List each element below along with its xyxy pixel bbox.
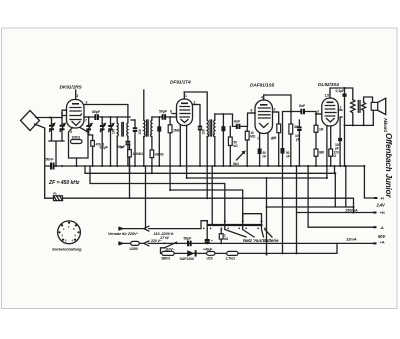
terminal +H — [297, 212, 376, 214]
terminal -A — [308, 166, 375, 227]
output transformer secondary — [362, 102, 366, 125]
oscillator coil b — [127, 105, 128, 142]
svg-text:3: 3 — [274, 108, 276, 112]
capacitor 50pF osc — [120, 142, 130, 166]
svg-text:1: 1 — [185, 94, 187, 98]
capacitor 8nF 2 — [299, 104, 306, 114]
trimmer C 50pF — [60, 118, 66, 142]
svg-text:1,5: 1,5 — [325, 94, 330, 98]
svg-text:2,4V: 2,4V — [376, 203, 387, 208]
svg-text:220 V~: 220 V~ — [150, 239, 163, 243]
capacitor 50uF series — [184, 237, 193, 247]
capacitor blob detector — [221, 114, 225, 166]
resistor 2k — [219, 229, 228, 244]
plug tick upper — [119, 227, 121, 231]
antenna (frame aerial diamond) — [21, 111, 40, 131]
bus line y173 — [85, 166, 335, 173]
plug tick lower — [119, 242, 121, 246]
wire antenna to grid — [36, 110, 67, 117]
IF2 coil a — [201, 120, 208, 198]
resistor 10Mohm grid leak — [245, 126, 256, 166]
trimmer C padder b — [108, 117, 113, 166]
svg-text:150mA: 150mA — [345, 208, 358, 213]
capacitor 100pF — [295, 120, 302, 166]
svg-text:+: + — [211, 239, 213, 243]
wire V2 anode top to IF2 — [184, 92, 207, 120]
svg-text:+A: +A — [380, 241, 385, 245]
wire V4 anode to output transformer — [330, 88, 353, 100]
svg-text:2,7kΩ: 2,7kΩ — [226, 257, 236, 261]
svg-text:6: 6 — [170, 110, 172, 114]
tube V1 DK91/1R5 — [61, 90, 88, 134]
socket diagram — [58, 221, 81, 244]
svg-text:100: 100 — [201, 129, 205, 134]
svg-text:+H: +H — [380, 211, 385, 215]
volume pot arrow — [237, 152, 245, 161]
bus line y183.5 — [90, 166, 225, 222]
svg-text:8nF: 8nF — [234, 120, 241, 124]
switch contact 2 — [224, 220, 226, 228]
resistor V4 grid — [314, 114, 324, 149]
trimmer C 25pF — [49, 118, 55, 142]
svg-text:7: 7 — [85, 119, 87, 123]
fuse in line y198 — [53, 192, 63, 201]
mains line lower — [121, 242, 143, 244]
IF1 coil b — [151, 117, 152, 150]
svg-text:1M: 1M — [319, 128, 324, 132]
filter electrolytic 50uF — [205, 229, 213, 244]
trimmer C at grid 2 — [86, 118, 92, 136]
svg-text:8nF: 8nF — [299, 104, 306, 108]
svg-text:2: 2 — [340, 106, 342, 110]
svg-text:0,1µF: 0,1µF — [100, 146, 108, 150]
resistor V4 filament — [329, 149, 339, 166]
bus line y190 — [170, 190, 243, 222]
switch contact 4 — [261, 220, 263, 228]
V3 filament wires — [260, 134, 268, 167]
terminal -H — [364, 166, 376, 198]
IF1 coil a — [138, 90, 145, 166]
svg-text:Akkord: Akkord — [383, 118, 388, 132]
svg-text:2: 2 — [77, 94, 79, 98]
switch contact 3 — [242, 220, 244, 228]
svg-text:680: 680 — [319, 151, 324, 155]
V4 filament wires — [327, 126, 331, 178]
trimmer C padder a — [100, 117, 105, 166]
svg-text:50nF: 50nF — [286, 151, 290, 158]
svg-text:+40µF: +40µF — [203, 247, 212, 251]
V2 filament wires — [180, 125, 186, 178]
switch bracket — [243, 214, 262, 222]
svg-text:100Ω: 100Ω — [72, 136, 81, 140]
svg-text:-A: -A — [380, 226, 384, 230]
resistor 2,7k — [226, 251, 239, 260]
svg-text:50nF: 50nF — [263, 151, 267, 158]
tube V4 DL92/3S4 — [316, 93, 342, 126]
capacitor blob AF bypass — [281, 148, 285, 154]
wire grid2 line y117 — [84, 116, 130, 118]
plug arrow upper — [144, 226, 149, 231]
switch label pointers — [225, 230, 272, 238]
switch contact 1 — [206, 220, 208, 228]
capacitor 80pF — [92, 110, 101, 120]
capacitor 50nF series in bus — [46, 158, 55, 170]
capacitor 0,1uF — [336, 88, 347, 166]
svg-text:-H: -H — [380, 197, 384, 201]
svg-text:50µF: 50µF — [184, 237, 193, 241]
junction dots on buses — [49, 87, 365, 256]
voltage selector — [164, 242, 178, 251]
speaker — [364, 97, 386, 125]
capacitor 50pF grid — [159, 110, 168, 120]
svg-text:880Ω: 880Ω — [162, 257, 171, 261]
svg-text:50nF: 50nF — [46, 158, 55, 162]
svg-text:7: 7 — [257, 137, 259, 141]
svg-text:Versatz für 220V~: Versatz für 220V~ — [108, 231, 140, 236]
resistor 47k — [91, 135, 104, 166]
terminal +A — [149, 242, 376, 244]
oscillator coil core — [122, 123, 124, 137]
vertical mains feed — [145, 198, 147, 228]
wire trimmer common — [49, 141, 64, 166]
svg-text:20nF: 20nF — [118, 145, 126, 149]
oscillator coil a — [112, 117, 119, 166]
svg-text:kΩ: kΩ — [224, 237, 229, 241]
svg-text:4: 4 — [261, 96, 263, 100]
svg-text:0,1µF: 0,1µF — [336, 89, 346, 93]
bus line y198 — [45, 198, 354, 212]
resistor U350 — [130, 241, 140, 251]
switch bar — [207, 224, 263, 226]
wire AF node to 8nF2 — [283, 112, 322, 254]
wire speaker return — [345, 124, 374, 126]
capacitor at V2 anode side — [193, 105, 203, 167]
svg-text:U350: U350 — [130, 247, 138, 251]
tube V2 DF91/1T4 — [170, 92, 196, 126]
svg-text:50pF: 50pF — [159, 110, 168, 114]
svg-text:ZF = 450 kHz: ZF = 450 kHz — [48, 180, 80, 186]
switch position dots — [203, 228, 266, 230]
svg-text:1,2MΩ: 1,2MΩ — [133, 152, 144, 156]
svg-text:100: 100 — [138, 129, 142, 134]
resistor 680 ohm — [150, 150, 164, 173]
vertical IF feed — [130, 166, 213, 225]
svg-text:3: 3 — [317, 110, 319, 114]
IF2 core — [210, 120, 212, 136]
svg-text:DL92/3S4: DL92/3S4 — [318, 82, 339, 88]
resistor 1Mohm — [168, 117, 181, 190]
svg-text:DF91/1T4: DF91/1T4 — [170, 80, 191, 86]
mains line upper — [121, 221, 207, 229]
svg-text:6: 6 — [251, 109, 253, 113]
resistor V4 grid lower — [314, 149, 324, 166]
svg-text:Offenbach Junior: Offenbach Junior — [384, 133, 393, 198]
output transformer primary — [351, 100, 355, 126]
resistor det load — [228, 126, 232, 166]
tube V3 DAF91/1S5 — [250, 95, 277, 141]
V1 filament cage — [69, 128, 89, 159]
svg-text:1k: 1k — [271, 137, 275, 141]
electrolytic 40uF — [203, 247, 215, 260]
main ground bus — [45, 165, 365, 167]
bottom return line — [161, 243, 338, 253]
svg-text:m₁: m₁ — [53, 192, 58, 196]
svg-text:U15: U15 — [207, 256, 213, 260]
IF1 core — [147, 120, 149, 136]
IF2 coil b — [213, 114, 214, 166]
svg-text:5kΩ: 5kΩ — [233, 162, 239, 166]
svg-text:DK91/1RS: DK91/1RS — [60, 85, 83, 91]
svg-text:80pF: 80pF — [92, 110, 101, 114]
wire IF1 b to 50pF grid cap — [152, 115, 177, 117]
svg-text:100pF: 100pF — [295, 134, 300, 141]
capacitor 8nF AF coupling — [233, 113, 256, 129]
bus line y178 — [187, 178, 327, 255]
svg-text:SAF2206: SAF2206 — [180, 257, 195, 261]
capacitor blob below V3 — [258, 149, 262, 155]
svg-text:Sockelschaltung: Sockelschaltung — [52, 246, 82, 251]
resistor at V3 anode — [272, 112, 281, 166]
capacitor blob IF1 — [157, 117, 161, 166]
svg-text:1MΩ: 1MΩ — [173, 129, 181, 133]
capacitor blob at 135 — [131, 120, 137, 166]
output transformer core — [358, 101, 360, 113]
resistor 880 ohm — [162, 251, 175, 260]
resistor AF anode load — [289, 124, 299, 166]
svg-text:12mA: 12mA — [346, 237, 357, 242]
resistor 100 ohm — [71, 136, 83, 144]
wire V3 top to AF node — [264, 95, 291, 124]
rectifier diode SAF2206 — [180, 250, 196, 261]
svg-text:Netz ′Aus′Batterie: Netz ′Aus′Batterie — [243, 238, 279, 243]
wire antenna lower tap to left down-bus — [35, 124, 45, 198]
wire IF2 b to detector — [215, 114, 233, 126]
svg-text:DAF91/1S5: DAF91/1S5 — [250, 83, 275, 89]
wire V1 anode to osc coil b — [84, 104, 128, 106]
resistor 1,2Mohm — [128, 145, 143, 199]
plug arrow lower — [144, 241, 149, 246]
heater feed line y207 — [267, 166, 354, 207]
capacitor at V4 anode — [335, 117, 342, 166]
svg-text:100: 100 — [112, 129, 116, 134]
